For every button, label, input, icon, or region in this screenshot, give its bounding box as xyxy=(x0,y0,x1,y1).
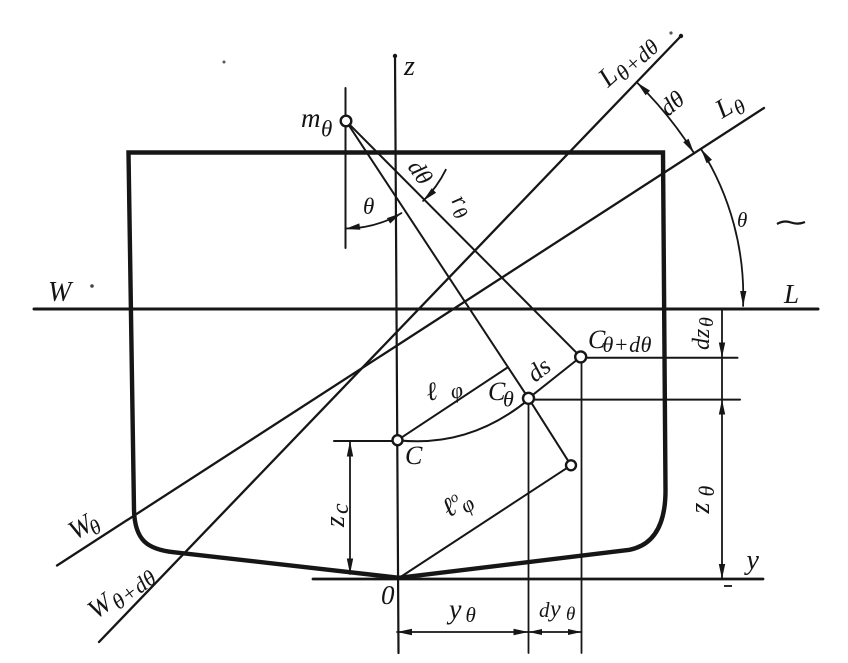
line l_phi from C perpendicular to r_theta xyxy=(398,368,508,441)
svg-text:θ: θ xyxy=(466,603,476,627)
dimension line z_theta / dz_theta xyxy=(721,309,723,579)
speck near W xyxy=(90,284,94,288)
arc angle dtheta at m_theta xyxy=(423,170,446,201)
arrowhead theta right top xyxy=(701,149,712,163)
small dash right of theta xyxy=(777,222,805,224)
svg-text:m: m xyxy=(301,103,321,133)
label L_theta xyxy=(709,85,750,129)
arc angle dtheta right xyxy=(637,83,694,154)
label l0_phi xyxy=(436,482,479,527)
arc angle theta at m_theta xyxy=(346,213,401,228)
svg-text:0: 0 xyxy=(381,580,395,610)
projection line below C_theta xyxy=(528,402,530,653)
arrowhead z_c top xyxy=(347,441,353,457)
line m_theta to C_theta+dtheta xyxy=(346,121,581,357)
svg-text:θ: θ xyxy=(363,194,374,219)
svg-text:W: W xyxy=(48,277,74,308)
dimension line dy_theta xyxy=(529,631,582,633)
arrowhead dy_theta left xyxy=(529,629,543,635)
svg-text:C: C xyxy=(405,441,423,470)
label dz_theta xyxy=(689,317,718,350)
foot point on l0_phi xyxy=(566,460,576,470)
svg-text:z: z xyxy=(320,516,351,528)
point m_theta xyxy=(341,116,352,127)
label dtheta at m_theta xyxy=(402,156,437,191)
arrowhead z_theta top xyxy=(719,400,725,415)
point C_theta xyxy=(523,393,534,404)
svg-text:c: c xyxy=(328,503,354,514)
line l0_phi from O to foot point xyxy=(399,465,571,578)
label W_theta+dtheta xyxy=(82,557,162,629)
speck top right xyxy=(669,31,672,34)
level line at C_theta xyxy=(533,399,740,401)
label dtheta right xyxy=(655,86,690,121)
svg-text:d: d xyxy=(539,598,550,622)
vertical through m_theta xyxy=(345,88,347,248)
arrowhead z_c bottom xyxy=(347,559,353,575)
svg-text:y: y xyxy=(446,595,462,626)
label l_phi xyxy=(423,371,465,409)
projection line below C_theta+dtheta xyxy=(581,361,583,653)
arrowhead dy_theta right xyxy=(568,629,582,635)
svg-text:y: y xyxy=(744,545,760,576)
dash below y axis xyxy=(724,585,732,587)
dimension line y_theta xyxy=(397,631,529,633)
hull section outline xyxy=(129,153,666,578)
svg-text:z: z xyxy=(685,503,716,515)
arrowhead theta arc left end xyxy=(345,223,360,229)
svg-text:L: L xyxy=(783,279,799,309)
arrowhead z_theta bottom xyxy=(719,564,725,579)
axis y xyxy=(313,578,763,581)
svg-text:θ: θ xyxy=(696,317,718,327)
arrowhead theta arc right end xyxy=(387,213,402,223)
waterline W-L xyxy=(34,308,818,311)
arrowhead theta right bottom xyxy=(740,291,746,306)
arrowhead dtheta right upper xyxy=(637,83,650,96)
point C xyxy=(393,435,403,445)
label L_theta+dtheta xyxy=(591,26,664,96)
inclined waterline W_theta - L_theta xyxy=(57,108,764,566)
svg-text:θ: θ xyxy=(321,117,332,142)
arrowhead y_theta left xyxy=(397,629,412,635)
point C_theta+dtheta xyxy=(575,351,586,362)
label W_theta xyxy=(63,505,106,550)
label ds xyxy=(522,353,556,388)
svg-text:θ: θ xyxy=(694,486,719,497)
svg-text:θ: θ xyxy=(503,387,514,412)
svg-text:dz: dz xyxy=(689,328,715,350)
svg-text:z: z xyxy=(403,51,415,82)
arrowhead dtheta arc at m_theta xyxy=(423,188,436,201)
svg-text:y: y xyxy=(548,597,561,623)
label r_theta xyxy=(442,190,479,224)
element ds from C_theta to C_theta+dtheta xyxy=(529,357,581,398)
inclined waterline W_theta+dtheta - L_theta+dtheta xyxy=(99,36,681,642)
arc angle theta right xyxy=(701,149,743,306)
svg-text:θ+dθ: θ+dθ xyxy=(603,332,652,357)
dimension line z_c xyxy=(349,441,351,574)
axis z xyxy=(395,55,399,653)
arrowhead dz_theta xyxy=(719,343,725,358)
svg-text:θ: θ xyxy=(737,208,747,232)
radius line r_theta from m_theta through C_theta xyxy=(346,121,571,465)
svg-text:θ: θ xyxy=(566,604,575,625)
label z_theta xyxy=(685,486,719,515)
curve of buoyancy centres C to C_theta xyxy=(398,399,529,441)
arrowhead y_theta right xyxy=(514,629,529,635)
level tick at C xyxy=(334,440,399,442)
level line at C_theta+dtheta xyxy=(585,357,738,359)
speck top xyxy=(223,61,226,64)
arrowhead dtheta right lower xyxy=(683,139,694,153)
label z_c xyxy=(320,503,354,528)
